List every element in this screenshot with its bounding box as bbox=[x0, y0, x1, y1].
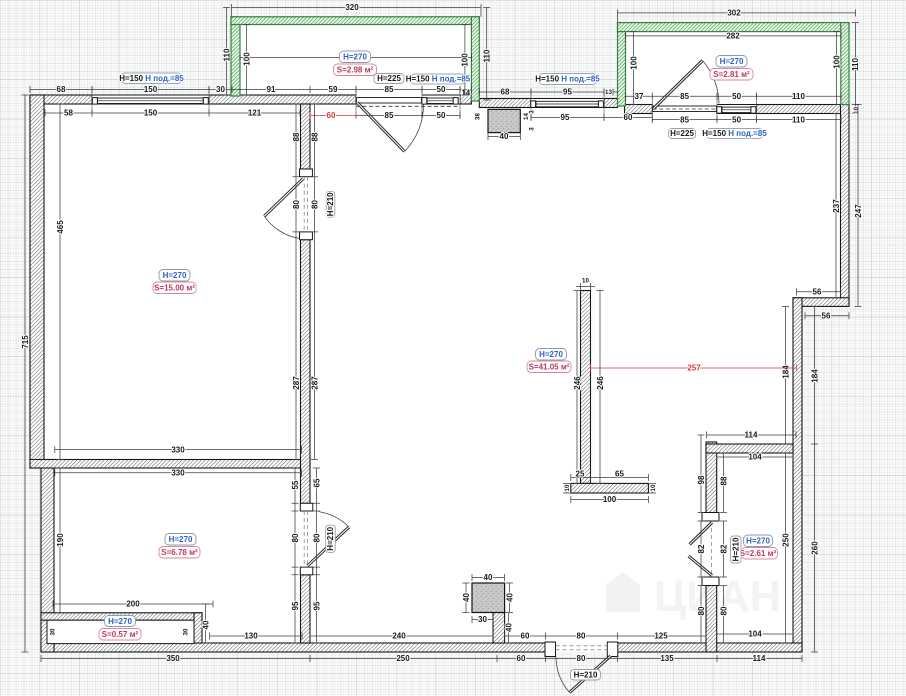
svg-text:50: 50 bbox=[437, 111, 446, 120]
svg-text:82: 82 bbox=[719, 544, 728, 553]
label box H=225 (balcony2 door) bbox=[669, 129, 696, 139]
balcony1 green wall top bbox=[231, 17, 479, 25]
concrete vent block top bbox=[488, 109, 520, 132]
svg-text:287: 287 bbox=[310, 376, 319, 390]
dim right outer 184 260 bbox=[811, 306, 818, 652]
divider wall room1 / room 6.78 bbox=[30, 460, 310, 469]
outer wall right lower bbox=[793, 298, 802, 652]
svg-text:114: 114 bbox=[753, 654, 766, 663]
closet right wall bbox=[194, 613, 202, 643]
svg-text:25: 25 bbox=[576, 470, 585, 479]
svg-text:S=6.78 м²: S=6.78 м² bbox=[161, 548, 198, 557]
svg-text:S=41.05 м²: S=41.05 м² bbox=[529, 363, 570, 372]
label box bathroom S=2.61 bbox=[740, 548, 778, 560]
label box entrance H=210 bbox=[571, 670, 601, 681]
svg-text:465: 465 bbox=[56, 220, 65, 234]
svg-text:S=15.00 м²: S=15.00 м² bbox=[154, 284, 195, 293]
svg-text:715: 715 bbox=[21, 335, 30, 349]
svg-text:40: 40 bbox=[462, 593, 471, 602]
dim balcony1 verticals 110 100 100 110 bbox=[223, 8, 490, 101]
svg-text:H=150 Н под.=85: H=150 Н под.=85 bbox=[702, 129, 767, 138]
svg-text:135: 135 bbox=[660, 654, 674, 663]
svg-text:91: 91 bbox=[267, 85, 276, 94]
closet inner outline bbox=[47, 620, 194, 643]
svg-text:114: 114 bbox=[745, 431, 758, 440]
block2 dims: 40 40 40 30 40 bbox=[463, 574, 514, 643]
stub wall below concrete block 2 bbox=[493, 613, 505, 644]
entrance door D3 jambs bbox=[545, 642, 618, 657]
svg-text:88: 88 bbox=[310, 132, 319, 141]
dim 40 closet step bbox=[202, 604, 209, 643]
entrance door D3 leaf (swings outside) bbox=[556, 656, 611, 693]
dim left 715 bbox=[22, 95, 29, 652]
dim wall-K right: 88 80 287 bbox=[311, 104, 318, 460]
svg-text:240: 240 bbox=[392, 632, 406, 641]
kitchen stem dims 246 246 bbox=[574, 291, 604, 484]
svg-text:H=270: H=270 bbox=[746, 537, 770, 546]
label box corridor S=41.05 bbox=[527, 361, 571, 373]
vent block1 dims: 40 38 14 3 3 bbox=[488, 133, 520, 140]
dim 200 above closet bbox=[53, 601, 213, 608]
svg-text:40: 40 bbox=[484, 573, 493, 582]
svg-text:287: 287 bbox=[292, 376, 301, 390]
svg-text:H=150 Н под.=85: H=150 Н под.=85 bbox=[535, 75, 600, 84]
svg-text:10: 10 bbox=[564, 484, 571, 491]
svg-text:85: 85 bbox=[385, 85, 394, 94]
outer wall jog bbox=[793, 298, 849, 307]
svg-text:95: 95 bbox=[563, 88, 572, 97]
kitchen stem dim 10 top bbox=[576, 283, 595, 290]
svg-text:60: 60 bbox=[624, 113, 633, 122]
kitchen T-wall bar bbox=[571, 483, 649, 493]
apartment floor white bbox=[30, 95, 849, 652]
svg-text:10: 10 bbox=[650, 484, 657, 491]
label box closet S=0.57 bbox=[99, 629, 141, 641]
svg-text:60: 60 bbox=[517, 654, 526, 663]
svg-text:184: 184 bbox=[810, 369, 819, 383]
svg-text:H=270: H=270 bbox=[720, 57, 744, 66]
svg-text:3: 3 bbox=[529, 127, 536, 131]
dim balcony2 302 bbox=[618, 9, 856, 22]
door C leaf (swings into corridor) bbox=[308, 512, 350, 566]
svg-text:H=270: H=270 bbox=[108, 617, 132, 626]
outer wall right upper bbox=[841, 105, 850, 307]
svg-text:60: 60 bbox=[327, 111, 336, 120]
closet top wall bbox=[41, 613, 202, 620]
svg-text:95: 95 bbox=[291, 601, 300, 610]
svg-text:56: 56 bbox=[813, 287, 822, 296]
svg-text:30: 30 bbox=[183, 628, 190, 635]
dim row top-C: 37 85 50 110 bbox=[625, 93, 841, 100]
svg-text:88: 88 bbox=[719, 476, 728, 485]
svg-text:85: 85 bbox=[680, 115, 689, 124]
dim door C left: 55 80 95 bbox=[292, 468, 299, 643]
balcony1 green wall left bbox=[231, 17, 240, 96]
kitchen T-bar dims 25 65 bbox=[571, 474, 649, 481]
svg-text:H=270: H=270 bbox=[169, 535, 193, 544]
svg-text:282: 282 bbox=[726, 32, 740, 41]
svg-text:104: 104 bbox=[748, 630, 762, 639]
svg-text:80: 80 bbox=[577, 654, 586, 663]
svg-text:184: 184 bbox=[781, 365, 790, 379]
door D1 leaf bbox=[357, 103, 424, 152]
svg-text:68: 68 bbox=[501, 88, 510, 97]
svg-text:H=210: H=210 bbox=[326, 192, 335, 216]
bathroom folding door leaf lower bbox=[689, 556, 713, 576]
dim row top-B: 68 95 13 bbox=[479, 89, 617, 96]
svg-text:S=2.81 м²: S=2.81 м² bbox=[713, 70, 750, 79]
label box closet H=270 bbox=[105, 616, 136, 627]
svg-text:80: 80 bbox=[291, 533, 300, 542]
dim wall-K left: 88 80 287 bbox=[293, 104, 300, 460]
dim bottom outer row: 350 250 60 80 135 114 bbox=[41, 655, 802, 662]
label box balcony1 S=2.98 bbox=[334, 64, 377, 76]
label box balcony1 H=270 bbox=[340, 51, 371, 63]
outer wall left upper bbox=[30, 95, 44, 468]
interior wall K2 (door B to door C) bbox=[301, 240, 311, 504]
svg-text:H=210: H=210 bbox=[732, 537, 741, 561]
svg-text:121: 121 bbox=[248, 109, 262, 118]
svg-text:56: 56 bbox=[822, 311, 831, 320]
svg-text:80: 80 bbox=[312, 533, 321, 542]
wall top-B1 (balcony1 to window W3) bbox=[479, 99, 531, 108]
bathroom dims left 98 88 82 82 80 80 bbox=[698, 435, 728, 643]
svg-text:H=225: H=225 bbox=[377, 74, 401, 83]
svg-text:125: 125 bbox=[654, 632, 668, 641]
svg-text:330: 330 bbox=[171, 445, 185, 454]
watermark CIAN bbox=[606, 572, 781, 621]
window W3 (95) bbox=[531, 99, 604, 108]
door B jambs and dashes bbox=[300, 169, 313, 240]
svg-text:30: 30 bbox=[50, 628, 57, 635]
window W1 (150) bbox=[92, 95, 209, 104]
svg-text:104: 104 bbox=[748, 453, 762, 462]
svg-text:260: 260 bbox=[810, 541, 819, 555]
wall top-A1 (left of window W1) bbox=[30, 95, 92, 104]
bathroom top wall bbox=[706, 444, 793, 453]
dim row inner 85 50 bbox=[356, 112, 460, 119]
dim row below-C: 85 50 110 bbox=[652, 116, 841, 123]
balcony2 green wall left bbox=[618, 23, 626, 106]
dim row below-B: 95 60 bbox=[531, 114, 652, 121]
svg-text:50: 50 bbox=[732, 115, 741, 124]
svg-text:30: 30 bbox=[216, 85, 225, 94]
bathroom left wall upper bbox=[706, 442, 717, 513]
svg-text:100: 100 bbox=[603, 495, 617, 504]
label box room6.78 S=6.78 bbox=[159, 547, 200, 559]
svg-text:55: 55 bbox=[291, 480, 300, 489]
svg-text:110: 110 bbox=[792, 115, 805, 124]
svg-text:H=270: H=270 bbox=[343, 53, 367, 62]
svg-text:H=225: H=225 bbox=[670, 129, 694, 138]
balcony1 green wall right bbox=[471, 17, 479, 101]
dim bottom inner row: 130 240 60 80 125 104 bbox=[210, 631, 793, 640]
svg-text:82: 82 bbox=[697, 544, 706, 553]
window W2 (50) bbox=[422, 95, 460, 104]
door B leaf (swings into room1) bbox=[264, 179, 303, 239]
svg-text:80: 80 bbox=[697, 606, 706, 615]
dim 56 56 jog bbox=[797, 288, 849, 319]
dim door C right: 65 80 95 bbox=[313, 468, 320, 643]
label box bathroom door H=210 bbox=[731, 536, 742, 563]
kitchen T-bar dims 10 10 100 bbox=[563, 483, 656, 503]
svg-text:S=2.61 м²: S=2.61 м² bbox=[740, 549, 777, 558]
outer wall left lower bbox=[41, 460, 54, 653]
label box window W1 H=150 bbox=[119, 73, 184, 84]
svg-text:65: 65 bbox=[312, 478, 321, 487]
svg-text:50: 50 bbox=[732, 92, 741, 101]
svg-text:150: 150 bbox=[144, 109, 158, 118]
balcony1 door D1 opening with sill bbox=[356, 95, 460, 106]
balcony2 green wall top bbox=[618, 23, 850, 32]
interior wall K3 (below door C) bbox=[301, 575, 311, 643]
svg-text:40: 40 bbox=[500, 132, 509, 141]
svg-text:200: 200 bbox=[126, 600, 140, 609]
svg-text:95: 95 bbox=[561, 113, 570, 122]
svg-text:10: 10 bbox=[582, 278, 589, 285]
svg-text:98: 98 bbox=[697, 475, 706, 484]
dim row inner-left: 58 150 121 bbox=[45, 110, 300, 117]
balcony 2 floor white bbox=[618, 23, 850, 105]
label box H=225 (balcony1 door) bbox=[374, 74, 404, 84]
svg-text:14: 14 bbox=[461, 89, 470, 98]
label box balcony2 S=2.81 bbox=[710, 69, 753, 81]
svg-text:H=270: H=270 bbox=[539, 350, 563, 359]
dim 330 below divider bbox=[55, 469, 302, 476]
bathroom folding door leaf upper bbox=[690, 523, 713, 545]
svg-text:10: 10 bbox=[853, 107, 860, 114]
label box room6.78 H=270 bbox=[165, 534, 196, 546]
bathroom door jambs bbox=[702, 513, 719, 586]
label box door B H=210 bbox=[326, 191, 335, 217]
svg-text:110: 110 bbox=[851, 57, 860, 70]
outer wall bottom (left of entrance door) bbox=[41, 643, 546, 652]
svg-text:350: 350 bbox=[166, 654, 180, 663]
svg-text:246: 246 bbox=[573, 376, 582, 390]
svg-text:65: 65 bbox=[615, 470, 624, 479]
dim room1 465 bbox=[57, 104, 64, 460]
svg-text:95: 95 bbox=[312, 601, 321, 610]
svg-text:130: 130 bbox=[244, 632, 258, 641]
svg-text:85: 85 bbox=[385, 111, 394, 120]
label box window W3 H=150 bbox=[535, 74, 600, 85]
svg-text:H=210: H=210 bbox=[574, 671, 598, 680]
svg-text:40: 40 bbox=[201, 620, 210, 629]
svg-text:S=2.98 м²: S=2.98 м² bbox=[337, 66, 374, 75]
svg-text:88: 88 bbox=[292, 132, 301, 141]
svg-text:80: 80 bbox=[577, 632, 586, 641]
svg-text:100: 100 bbox=[629, 56, 638, 70]
svg-text:246: 246 bbox=[596, 376, 605, 390]
window W4 (50) bbox=[717, 105, 757, 114]
svg-text:190: 190 bbox=[56, 533, 65, 547]
svg-text:110: 110 bbox=[222, 48, 231, 61]
svg-text:80: 80 bbox=[292, 200, 301, 209]
svg-text:30: 30 bbox=[478, 615, 487, 624]
closet 30 labels bbox=[50, 628, 190, 635]
bathroom dim 104 top bbox=[717, 454, 793, 461]
svg-text:68: 68 bbox=[57, 85, 66, 94]
bathroom dim 114 bbox=[707, 432, 796, 439]
svg-text:H=210: H=210 bbox=[326, 526, 335, 550]
kitchen T-wall stem bbox=[581, 291, 591, 484]
svg-text:58: 58 bbox=[64, 109, 73, 118]
wall top-C1 (under balcony2 left) bbox=[625, 105, 653, 114]
svg-text:257: 257 bbox=[687, 364, 701, 373]
svg-text:13: 13 bbox=[605, 89, 612, 96]
door D2 leaf (swings into balcony2) bbox=[654, 61, 720, 109]
svg-text:59: 59 bbox=[329, 85, 338, 94]
svg-text:H=270: H=270 bbox=[163, 271, 187, 280]
dim balcony2 282 bbox=[626, 32, 842, 39]
svg-text:250: 250 bbox=[781, 533, 790, 547]
svg-text:110: 110 bbox=[483, 49, 492, 62]
label box window W2 H=150 bbox=[406, 74, 471, 84]
balcony2 door D2 opening with sill bbox=[652, 105, 717, 114]
label box bathroom H=270 bbox=[744, 535, 773, 547]
extension lines window and door edges bbox=[92, 86, 757, 122]
svg-text:100: 100 bbox=[832, 55, 841, 69]
svg-text:50: 50 bbox=[437, 85, 446, 94]
wall top-A2 (window W1 to balcony door) bbox=[209, 95, 356, 104]
svg-text:80: 80 bbox=[310, 200, 319, 209]
svg-text:150: 150 bbox=[144, 85, 158, 94]
svg-text:110: 110 bbox=[792, 92, 805, 101]
svg-text:320: 320 bbox=[345, 3, 359, 12]
dim balcony1 300 bbox=[240, 54, 471, 61]
dim room 6.78 190 bbox=[57, 468, 64, 613]
svg-text:38: 38 bbox=[475, 113, 482, 120]
svg-text:H=150 Н под.=85: H=150 Н под.=85 bbox=[406, 75, 471, 84]
balcony2 green wall right bbox=[841, 23, 849, 105]
outer wall bottom (right of entrance door) bbox=[617, 643, 802, 652]
svg-text:80: 80 bbox=[719, 606, 728, 615]
label box room1 H=270 bbox=[159, 270, 190, 282]
svg-text:250: 250 bbox=[396, 654, 410, 663]
door C jambs and dashes bbox=[300, 503, 313, 575]
dim balcony2 verticals 100 100 110 10 bbox=[630, 23, 859, 114]
balcony 1 floor white bbox=[231, 17, 479, 97]
dim 330 above divider bbox=[55, 446, 302, 453]
svg-text:100: 100 bbox=[461, 53, 470, 67]
bathroom left wall lower bbox=[706, 586, 717, 653]
svg-text:40: 40 bbox=[504, 623, 513, 632]
dim right inner 184 250 bbox=[782, 306, 789, 643]
svg-text:330: 330 bbox=[171, 469, 185, 478]
label box door C H=210 bbox=[326, 525, 336, 552]
red dim 257 corridor bbox=[591, 364, 797, 373]
svg-text:S=0.57 м²: S=0.57 м² bbox=[102, 630, 139, 639]
wall top-A3 (post 14) bbox=[460, 95, 471, 104]
interior wall K1 (above door B) bbox=[301, 104, 311, 169]
svg-text:3: 3 bbox=[529, 110, 536, 114]
svg-text:100: 100 bbox=[242, 52, 251, 66]
dim right side 237 247 bbox=[833, 105, 862, 307]
svg-text:60: 60 bbox=[521, 632, 530, 641]
label box balcony2 H=270 bbox=[716, 56, 747, 68]
svg-text:237: 237 bbox=[832, 199, 841, 213]
wall top-C2 (under balcony2 right, solid 110) bbox=[757, 105, 842, 114]
svg-text:85: 85 bbox=[680, 92, 689, 101]
svg-text:302: 302 bbox=[727, 9, 741, 18]
svg-text:H=150 Н под.=85: H=150 Н под.=85 bbox=[119, 74, 184, 83]
concrete block bottom bbox=[472, 583, 505, 613]
label box window W4 H=150 bbox=[702, 129, 767, 139]
wall top-B2 (window W3 to balcony2) bbox=[604, 99, 618, 108]
label box corridor H=270 bbox=[536, 349, 567, 361]
red dim 60 bbox=[310, 111, 356, 120]
svg-text:40: 40 bbox=[505, 593, 514, 602]
label box room1 S=15.00 bbox=[153, 282, 196, 294]
svg-text:247: 247 bbox=[854, 204, 863, 218]
dim row top-left: 68 150 30 91 59 85 50 14 bbox=[30, 86, 471, 93]
svg-text:37: 37 bbox=[635, 92, 644, 101]
dim balcony1 320 bbox=[232, 4, 482, 17]
